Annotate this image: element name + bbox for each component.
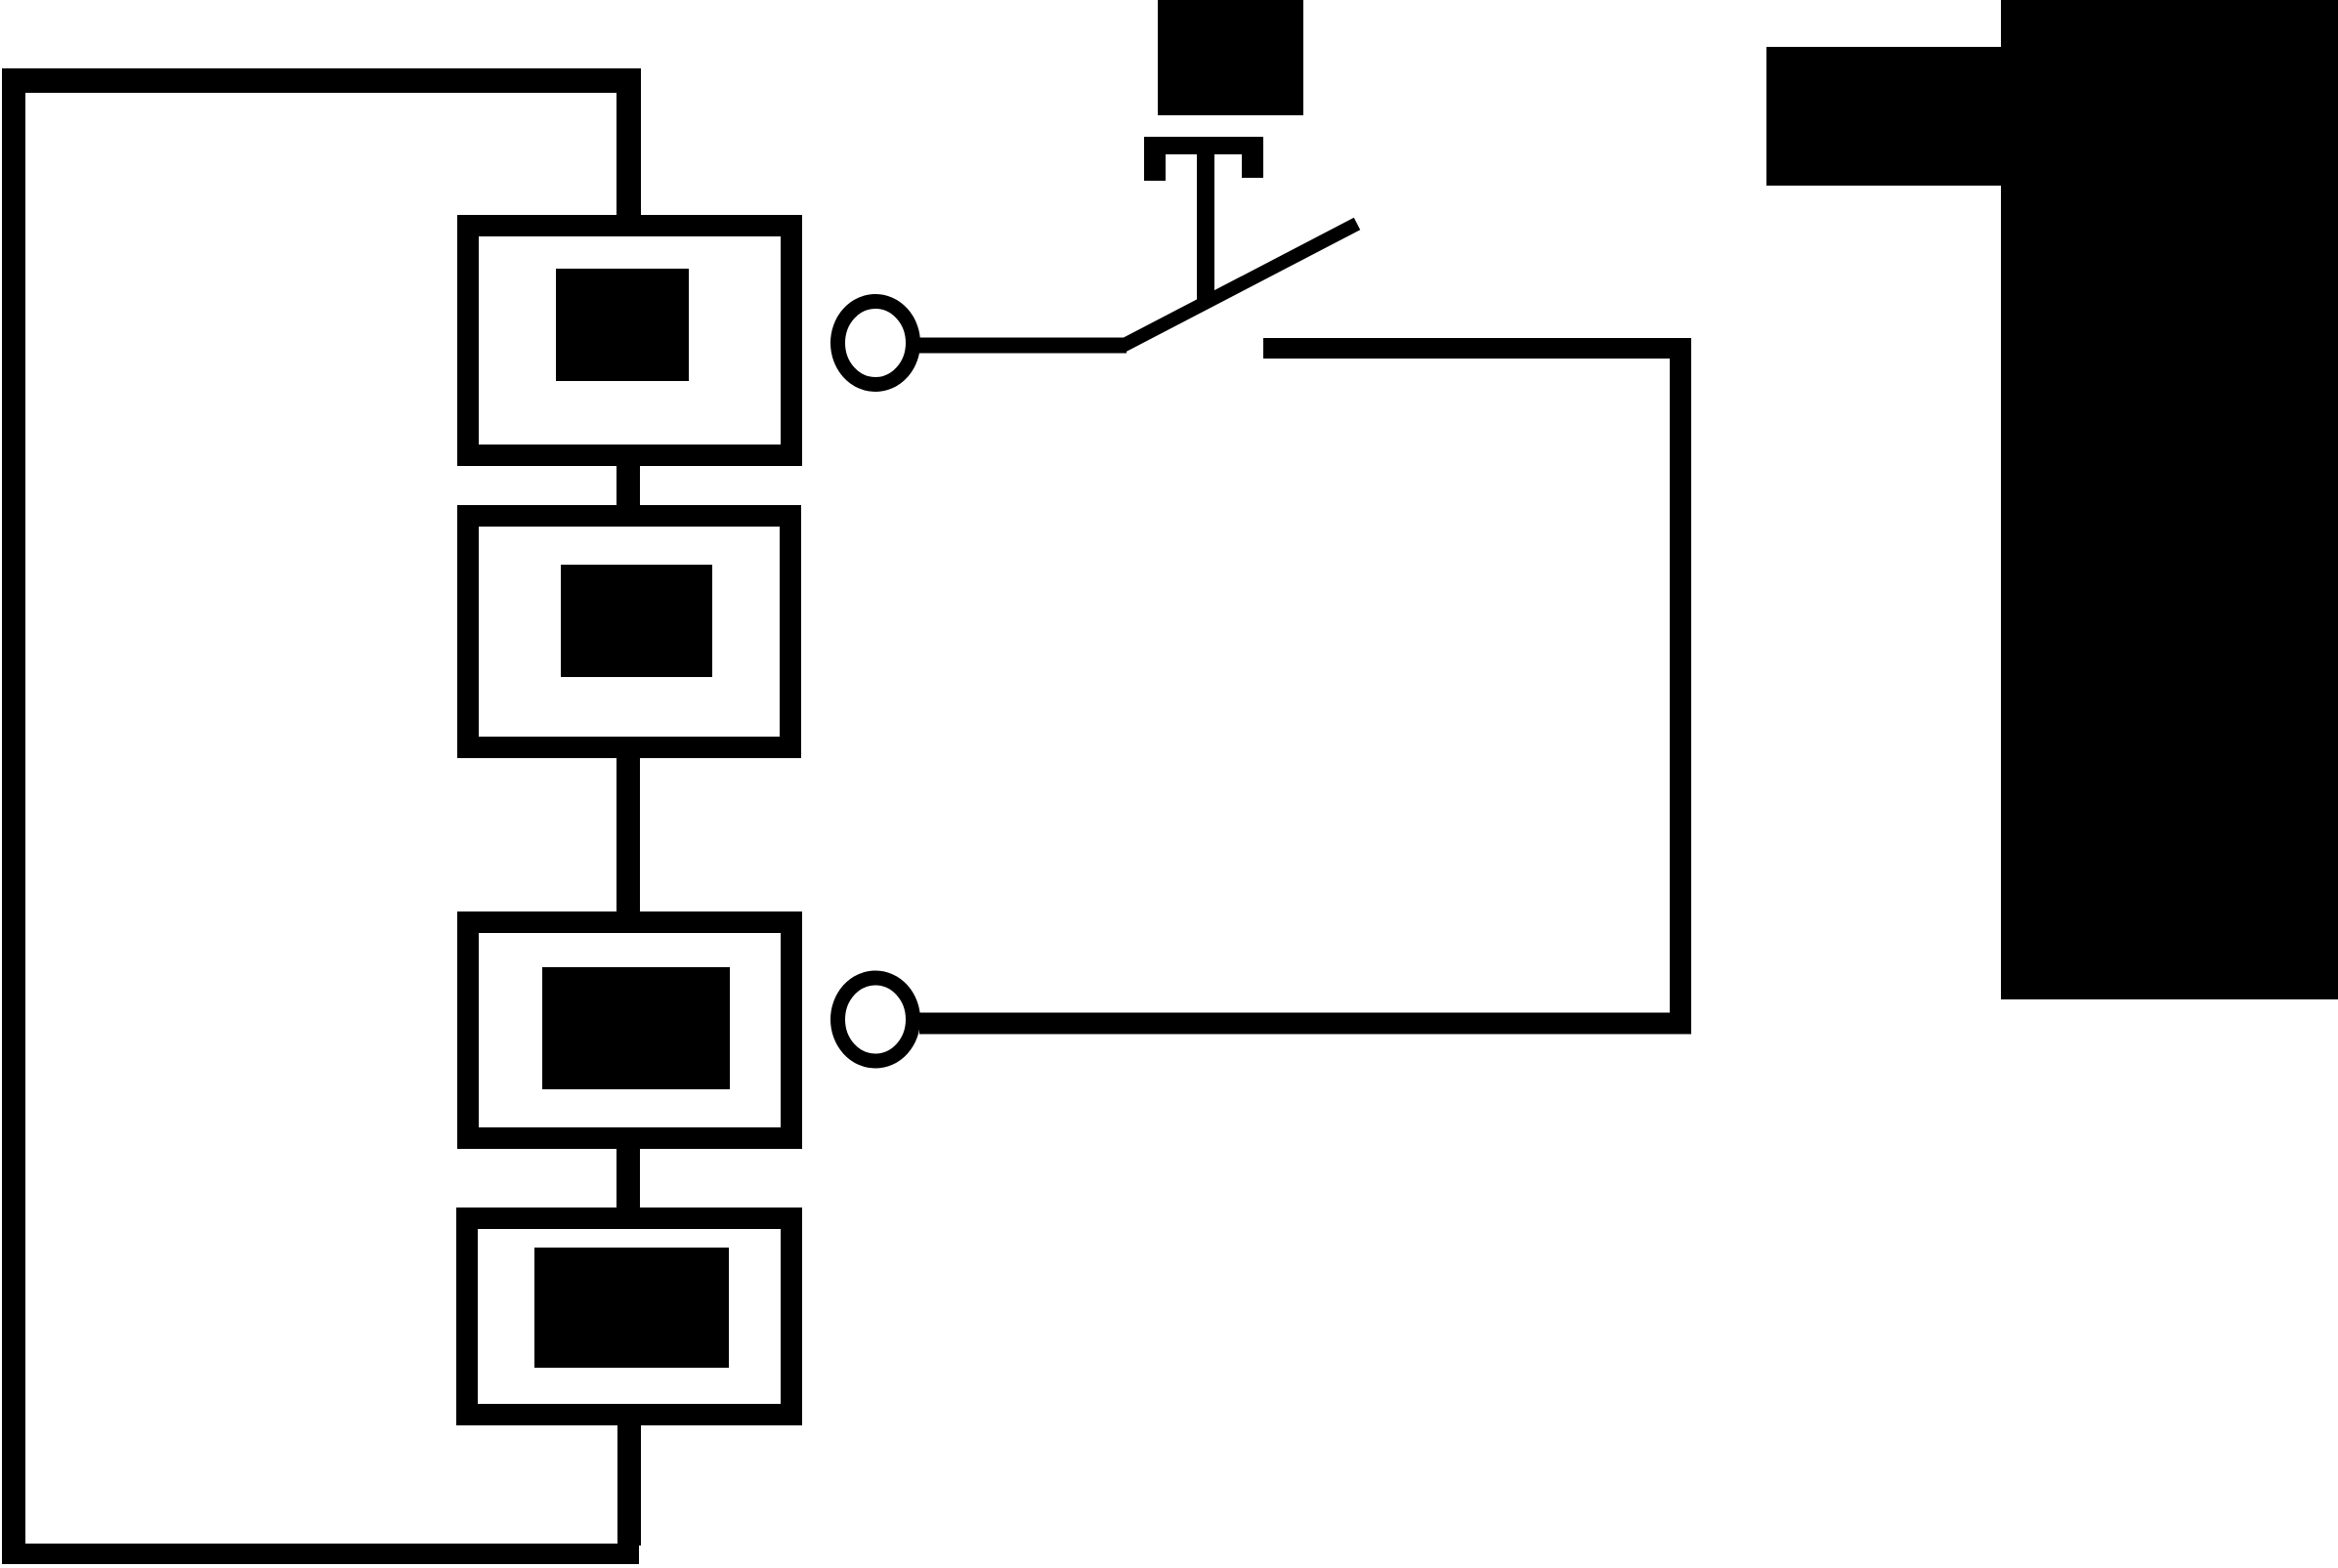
component box K1	[468, 226, 791, 455]
redacted label block right upper	[1766, 47, 2001, 186]
pushbutton actuator cap left hook of S1	[1144, 137, 1166, 181]
wire W3: vertical drop from top wire to box K1	[616, 91, 641, 218]
terminal T2: open-circle terminal at K3	[838, 978, 914, 1061]
wire W4: outer loop bottom horizontal	[2, 1544, 639, 1564]
redacted label in K1	[556, 269, 689, 381]
wire W8: connector between K3 and K4	[616, 1141, 640, 1217]
terminal T1: open-circle terminal at K1	[838, 302, 914, 385]
wire W11: right vertical wire	[1670, 338, 1691, 1034]
wire W1: outer loop left vertical	[2, 68, 25, 1564]
wire W9: switch pole wire from terminal T1	[919, 338, 1126, 354]
redacted label in K2	[561, 565, 712, 677]
wire W12: bottom horizontal wire to terminal T2	[919, 1013, 1691, 1035]
wire W6: connector between K1 and K2	[616, 457, 640, 514]
switch S1 blade (moving contact)	[1121, 224, 1357, 347]
redacted label in K4	[534, 1248, 729, 1368]
redacted label block right large	[2001, 0, 2338, 999]
component box K3	[468, 922, 791, 1138]
pushbutton actuator stem of S1	[1197, 151, 1214, 306]
wire W7: connector between K2 and K3	[616, 750, 640, 920]
component box K4	[467, 1218, 791, 1415]
pushbutton actuator cap right hook of S1	[1242, 137, 1263, 178]
redacted label in K3	[542, 967, 730, 1089]
pushbutton actuator cap bar of S1	[1144, 137, 1263, 154]
wire W5: vertical from box K4 down to bottom wire	[617, 1423, 641, 1546]
wire W2: outer loop top horizontal	[2, 68, 641, 93]
component box K2	[468, 516, 790, 747]
redacted label above pushbutton S1	[1158, 0, 1303, 115]
wire W10: fixed contact wire of S1 going right	[1263, 338, 1691, 359]
